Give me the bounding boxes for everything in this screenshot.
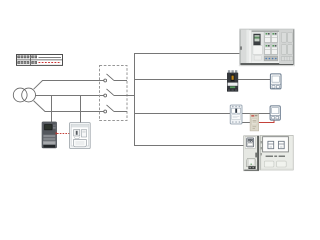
kWh meter icon M2 [270,74,281,89]
wire: branch 1 to meter cabinet [134,53,240,55]
switch S3 [104,105,114,113]
metering enclosure box (white cabinet with breaker) [70,123,91,149]
street cabinet B (bottom right, double window) [260,135,293,170]
street cabinet A (bottom left, with meter window) [244,136,259,171]
wire: switch S3 output [114,111,128,113]
transformer T1 [13,88,35,102]
switch S1 [104,74,114,82]
cabinet meter bank (4 meters) [265,32,278,54]
wire: branch 3 through breaker to meter [134,113,270,115]
legend row2 label 控制线路 [17,61,29,64]
wire: middle phase from transformer [36,95,104,97]
legend row2 color label 红色 [31,61,37,64]
wire: top phase from transformer [34,81,104,90]
kWh meter icon M3 [270,106,280,120]
breaker Q2 (white molded case breaker) [230,105,242,124]
legend box [16,54,63,65]
wire: branch 4 to street cabinet [134,145,244,147]
MCCB Q1 (dark molded case breaker) [227,70,238,91]
wire: bottom phase from transformer [34,101,104,112]
wire: switch S2 output to bus [114,95,135,97]
legend row1 solid line sample [39,57,62,59]
wire: drop to smart meter [51,96,53,122]
wire: stub breaker to card device [242,114,251,123]
wire: vertical distribution bus [134,53,136,146]
wire: red link card device to meter [259,120,274,122]
cabinet terminal strip [264,56,278,60]
legend row1 color label 黑色 [31,56,37,59]
wire: red control link meter to enclosure [57,133,69,135]
legend row2 red dashed line sample [39,62,62,64]
prepaid card device (tan wall unit) [250,114,259,131]
cabinet right door [279,29,294,64]
wire: drop to metering enclosure [80,96,82,123]
meter cabinet (large, doors open) [239,29,295,66]
wire: switch S1 output [114,80,128,82]
legend row1 label 干线电缆 [17,56,29,59]
wire: branch 2 through MCCB to meter [134,79,270,81]
switch cabinet dashed outline [100,66,128,121]
smart meter M1 (dark three-phase meter) [42,122,57,148]
switch S2 [104,89,114,97]
